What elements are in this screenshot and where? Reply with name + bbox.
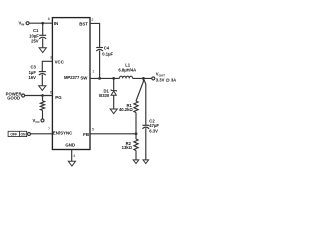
- svg-text:1: 1: [92, 70, 94, 74]
- resistor R2: [122, 134, 138, 160]
- capacitor C4: [96, 45, 113, 78]
- svg-text:6: 6: [50, 90, 52, 94]
- svg-text:EN/SYNC: EN/SYNC: [53, 130, 73, 135]
- wire L1 to VOUT: [133, 77, 152, 79]
- node VOUT terminal: [152, 72, 176, 83]
- wire PG: [25, 95, 53, 97]
- wire BST: [90, 23, 100, 47]
- svg-text:5: 5: [92, 128, 94, 132]
- wire VCC pin to C3: [42, 61, 52, 71]
- svg-text:25V: 25V: [31, 38, 39, 43]
- capacitor C3: [28, 64, 45, 85]
- node junction BST/SW: [98, 77, 101, 80]
- svg-text:GND: GND: [65, 142, 75, 147]
- svg-text:BST: BST: [79, 21, 88, 26]
- svg-text:C3: C3: [31, 64, 37, 69]
- wire EN/SYNC: [31, 133, 53, 135]
- wire VIN to IN pin: [29, 22, 52, 24]
- node OFF/ON terminal: [8, 131, 30, 136]
- node junction output: [142, 77, 145, 80]
- svg-text:16V: 16V: [28, 75, 36, 80]
- svg-text:GOOD: GOOD: [7, 96, 20, 101]
- svg-text:C1: C1: [33, 28, 39, 33]
- svg-text:8: 8: [48, 17, 50, 21]
- ground C2: [143, 160, 149, 164]
- svg-text:0.1µF: 0.1µF: [102, 51, 113, 56]
- ground C1: [39, 48, 46, 53]
- wire SW output: [90, 77, 119, 79]
- ground D1: [110, 109, 117, 114]
- node junction pull-up: [41, 94, 44, 97]
- svg-text:VCC: VCC: [55, 60, 65, 65]
- resistor pull-up: [40, 96, 44, 119]
- svg-text:SW: SW: [80, 75, 88, 80]
- node POWER GOOD terminal: [6, 92, 25, 101]
- node junction diode: [112, 77, 115, 80]
- op-amp U1 MP2377 IC body: [52, 18, 90, 150]
- ground R2: [133, 160, 139, 164]
- svg-text:OFF: OFF: [10, 133, 17, 137]
- svg-text:13kΩ: 13kΩ: [122, 145, 133, 150]
- svg-text:6.8µH/4A: 6.8µH/4A: [118, 67, 136, 72]
- diode D1 schottky B330: [99, 78, 116, 109]
- capacitor C1: [29, 23, 46, 48]
- svg-text:IN: IN: [54, 21, 58, 26]
- node junction C1: [41, 22, 44, 25]
- svg-text:7: 7: [48, 127, 50, 131]
- svg-text:3: 3: [50, 56, 52, 60]
- svg-text:B330: B330: [99, 93, 110, 98]
- svg-text:C4: C4: [104, 45, 110, 50]
- svg-text:ON: ON: [21, 133, 27, 137]
- svg-text:47µF: 47µF: [149, 123, 159, 128]
- node VIN terminal: [19, 20, 30, 26]
- ground C3: [39, 86, 46, 91]
- resistor R1: [119, 78, 143, 133]
- ground IC: [68, 161, 75, 166]
- svg-text:3.3V @ 3A: 3.3V @ 3A: [156, 77, 176, 82]
- wire FB: [90, 133, 136, 135]
- wire GND pin: [71, 150, 73, 162]
- svg-text:PG: PG: [55, 95, 62, 100]
- inductor L1: [118, 63, 136, 79]
- node VCC terminal: [33, 118, 44, 124]
- node junction FB: [135, 132, 138, 135]
- svg-text:FB: FB: [83, 132, 89, 137]
- svg-text:2: 2: [91, 18, 93, 22]
- svg-text:MP2377: MP2377: [64, 75, 80, 80]
- capacitor C2: [142, 78, 159, 159]
- svg-text:4: 4: [73, 154, 75, 158]
- svg-text:6.3V: 6.3V: [149, 129, 158, 134]
- svg-text:40.2kΩ: 40.2kΩ: [119, 107, 133, 112]
